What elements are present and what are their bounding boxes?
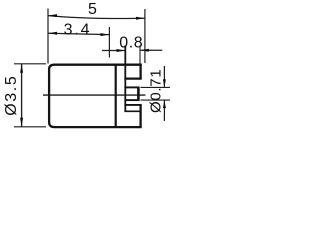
dia 3.5 dimension line: [21, 64, 23, 127]
extension line 0.8 right: [139, 46, 141, 64]
centerline: [43, 94, 145, 96]
dia 0.71 dim line lower: [163, 100, 165, 121]
dimension 3.4 left arrow: [48, 32, 57, 35]
dimension 0.8 right tail: [140, 49, 162, 51]
boss bottom: [124, 99, 139, 101]
svg-text:Ø0.71: Ø0.71: [148, 69, 165, 113]
rotor face lower edge: [139, 104, 141, 127]
extension line left (body left plane): [47, 9, 49, 64]
dimension 5 left arrow: [48, 14, 57, 17]
dia 0.71 up arrow: [163, 100, 166, 108]
dia 0.71 dim line upper: [163, 66, 165, 87]
extension line body right (3.4): [108, 27, 110, 58]
dia 0.71 top extension: [141, 86, 171, 88]
dia 0.71 down arrow: [163, 79, 166, 87]
extension line far right (5): [144, 9, 146, 63]
svg-text:Ø3.5: Ø3.5: [3, 75, 20, 116]
boss top: [124, 86, 139, 88]
svg-text:5: 5: [88, 1, 97, 18]
boss tip: [137, 87, 140, 101]
body-rotor boundary line: [115, 65, 117, 127]
slot lower step inner: [124, 110, 141, 112]
slot top wall: [124, 77, 141, 79]
svg-text:3.4: 3.4: [64, 21, 92, 38]
dimension 3.4 right arrow: [100, 33, 109, 36]
dimension 0.8 left tail: [102, 50, 125, 52]
dia 0.71 bottom extension: [141, 99, 171, 101]
dimension 5 line (slightly sloped as in scan): [48, 16, 145, 19]
dimension 5 right arrow: [136, 17, 145, 20]
slot lower step outer: [124, 104, 141, 106]
dia 3.5 bottom extension: [14, 126, 46, 128]
svg-text:0.8: 0.8: [119, 34, 143, 51]
rotor face upper edge: [139, 64, 141, 80]
dimension 3.4 line: [48, 33, 109, 34]
slot floor / 0.8 left extension: [124, 46, 126, 112]
body outline (top edge, left edge, bottom edge with rounded left corners): [49, 65, 142, 127]
dia 3.5 up arrow: [20, 64, 23, 73]
dimension 0.8 right arrow (pointing left): [140, 49, 149, 52]
dia 3.5 down arrow: [20, 118, 23, 127]
dimension 0.8 left arrow (pointing right): [117, 49, 126, 52]
dia 3.5 top extension: [14, 63, 46, 65]
